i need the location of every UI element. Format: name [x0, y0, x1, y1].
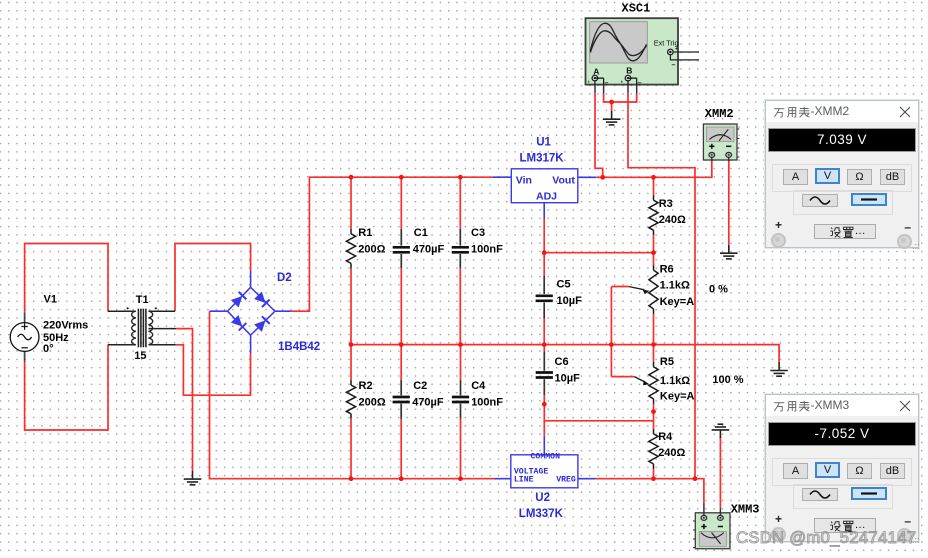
- wire ADJ node down to C5: [543, 219, 545, 276]
- capacitor C3 body: [452, 229, 469, 269]
- wire C2 leads: [400, 345, 402, 479]
- capacitor C5 body: [536, 276, 553, 319]
- wire T1 secondary top to bridge top vertex: [175, 244, 251, 312]
- wire scope minus terminals ground link: [604, 94, 637, 112]
- svg-text:470µF: 470µF: [413, 244, 445, 256]
- node scope ground junction: [609, 100, 614, 105]
- diode bridge D2 1B4B42: [210, 271, 291, 354]
- svg-text:LM337K: LM337K: [519, 508, 564, 520]
- svg-text:470µF: 470µF: [412, 396, 444, 408]
- svg-text:XMM3: XMM3: [731, 503, 760, 517]
- svg-text:R1: R1: [358, 227, 372, 239]
- wire XMM2 minus to ground: [728, 161, 730, 246]
- wire U1 Vout blue stub: [578, 176, 597, 178]
- svg-text:R6: R6: [660, 264, 674, 276]
- multimeter icon XMM3: [693, 504, 730, 549]
- svg-text:C6: C6: [555, 356, 569, 368]
- svg-text:T1: T1: [136, 294, 149, 306]
- wire blue net into U1 Vin: [493, 176, 512, 178]
- wire potentiometer wipers to ground rail: [611, 287, 634, 377]
- resistor R5 body: [649, 362, 658, 404]
- svg-text:COMMON: COMMON: [531, 452, 561, 461]
- svg-text:V1: V1: [44, 294, 57, 306]
- svg-text:240Ω: 240Ω: [658, 447, 685, 459]
- wire C4 leads: [460, 345, 462, 479]
- resistor R2 body: [346, 380, 355, 419]
- svg-text:U2: U2: [535, 492, 550, 504]
- svg-text:10µF: 10µF: [557, 295, 583, 307]
- svg-text:1B4B42: 1B4B42: [278, 341, 320, 353]
- capacitor C6 body: [536, 352, 553, 396]
- regulator U1 LM317K: [511, 169, 578, 203]
- svg-text:240Ω: 240Ω: [659, 214, 686, 226]
- svg-text:XMM2: XMM2: [705, 107, 734, 121]
- svg-text:D2: D2: [277, 272, 292, 284]
- svg-text:LM317K: LM317K: [520, 152, 565, 164]
- node top rail junctions: [349, 175, 656, 180]
- svg-text:1.1kΩ: 1.1kΩ: [660, 280, 690, 292]
- resistor R4 body: [649, 429, 658, 469]
- wire C6 to R5-R4 junction link: [544, 420, 653, 422]
- svg-text:C4: C4: [471, 380, 486, 392]
- svg-text:R5: R5: [660, 356, 674, 368]
- svg-text:C2: C2: [413, 380, 427, 392]
- capacitor C4 body: [452, 380, 469, 419]
- svg-text:–: –: [672, 62, 676, 69]
- svg-text:100nF: 100nF: [471, 396, 503, 408]
- potentiometer R5 wiper arrow: [634, 377, 649, 386]
- resistor R3 body: [649, 195, 658, 235]
- capacitor C1 body: [393, 229, 410, 269]
- svg-text:C3: C3: [471, 227, 485, 239]
- ground oscilloscope: [603, 111, 621, 125]
- multimeter icon XMM2: [703, 124, 739, 161]
- node ADJ junctions: [542, 250, 656, 255]
- svg-text:Key=A: Key=A: [660, 296, 695, 308]
- svg-text:U1: U1: [536, 137, 551, 149]
- svg-text:100nF: 100nF: [471, 244, 503, 256]
- watermark: [736, 529, 916, 548]
- svg-text:Key=A: Key=A: [660, 390, 695, 402]
- svg-text:1.1kΩ: 1.1kΩ: [660, 375, 690, 387]
- svg-text:XSC1: XSC1: [622, 2, 651, 16]
- wire C3 leads: [459, 177, 461, 344]
- svg-text:C1: C1: [414, 227, 428, 239]
- resistor R6 body: [649, 265, 658, 314]
- wire bridge right vertex up to positive top rail: [291, 177, 493, 311]
- wire bridge left vertex to negative bottom rail: [210, 311, 495, 479]
- node C6 and R5-R4 junctions: [542, 402, 656, 414]
- svg-text:R3: R3: [659, 198, 673, 210]
- svg-text:Vout: Vout: [552, 175, 575, 187]
- instrument panel XMM3: [765, 394, 919, 542]
- svg-text:220Vrms: 220Vrms: [43, 319, 88, 331]
- node middle rail junctions: [349, 342, 656, 347]
- svg-text:Vin: Vin: [516, 175, 532, 187]
- wire V1 bottom to T1 primary bottom: [25, 345, 108, 430]
- svg-text:–: –: [605, 80, 609, 87]
- svg-text:10µF: 10µF: [555, 373, 581, 385]
- instrument panel XMM2: [765, 100, 919, 248]
- regulator U2 LM337K: [511, 452, 578, 487]
- svg-text:200Ω: 200Ω: [358, 244, 385, 256]
- svg-text:R4: R4: [658, 431, 673, 443]
- svg-text:100 %: 100 %: [712, 374, 743, 386]
- svg-text:ADJ: ADJ: [536, 191, 557, 203]
- svg-text:–: –: [638, 80, 642, 87]
- wire middle ground rail: [351, 345, 779, 363]
- wire R1 leads: [350, 177, 352, 344]
- wire R2 leads: [350, 345, 352, 479]
- svg-text:0 %: 0 %: [709, 283, 728, 295]
- svg-text:15: 15: [134, 350, 146, 362]
- wire C5 bottom lead: [543, 319, 545, 345]
- wire top rail Vout to XMM2 plus: [596, 161, 712, 178]
- oscilloscope XSC1: [586, 18, 700, 93]
- wire U2 common blue stub: [543, 436, 545, 455]
- wire T1 secondary bottom to bridge bottom vertex: [176, 345, 251, 395]
- wire C6 column: [543, 345, 545, 436]
- wire bottom rail right to XMM3 plus: [596, 479, 704, 504]
- svg-text:B: B: [626, 66, 632, 76]
- wire U2 line pin blue: [495, 478, 511, 480]
- svg-text:200Ω: 200Ω: [359, 396, 386, 408]
- wire oscilloscope channel A to Vout node: [595, 93, 603, 177]
- svg-text:VREG: VREG: [556, 475, 576, 484]
- wire U2 vreg pin blue: [578, 478, 596, 480]
- resistor R1 body: [346, 229, 355, 269]
- wire R3 chain column: [653, 177, 655, 479]
- wire XMM3 minus up to ground: [719, 437, 721, 508]
- wire oscilloscope channel B to bottom rail: [628, 93, 695, 479]
- transformer T1: [108, 307, 177, 347]
- ground XMM3 inverted: [712, 424, 730, 438]
- svg-text:LINE: LINE: [514, 475, 534, 484]
- svg-text:C5: C5: [557, 278, 571, 290]
- potentiometer R6 wiper arrow: [629, 287, 650, 295]
- wire V1 top to T1 primary top: [25, 244, 108, 313]
- ground right rail: [770, 362, 788, 376]
- svg-text:R2: R2: [359, 380, 373, 392]
- AC source V1: [10, 312, 39, 361]
- ground center tap: [184, 471, 202, 485]
- wire U1 ADJ blue stub: [543, 203, 545, 219]
- svg-text:+: +: [675, 46, 679, 53]
- ground XMM2: [720, 245, 738, 259]
- capacitor C2 body: [393, 380, 410, 419]
- wire ADJ node to R3-R6 junction: [544, 252, 653, 254]
- wire T1 center tap to ground: [176, 329, 192, 471]
- node bottom rail junctions: [349, 476, 698, 481]
- wire C1 leads: [400, 177, 402, 344]
- svg-text:0°: 0°: [43, 343, 54, 355]
